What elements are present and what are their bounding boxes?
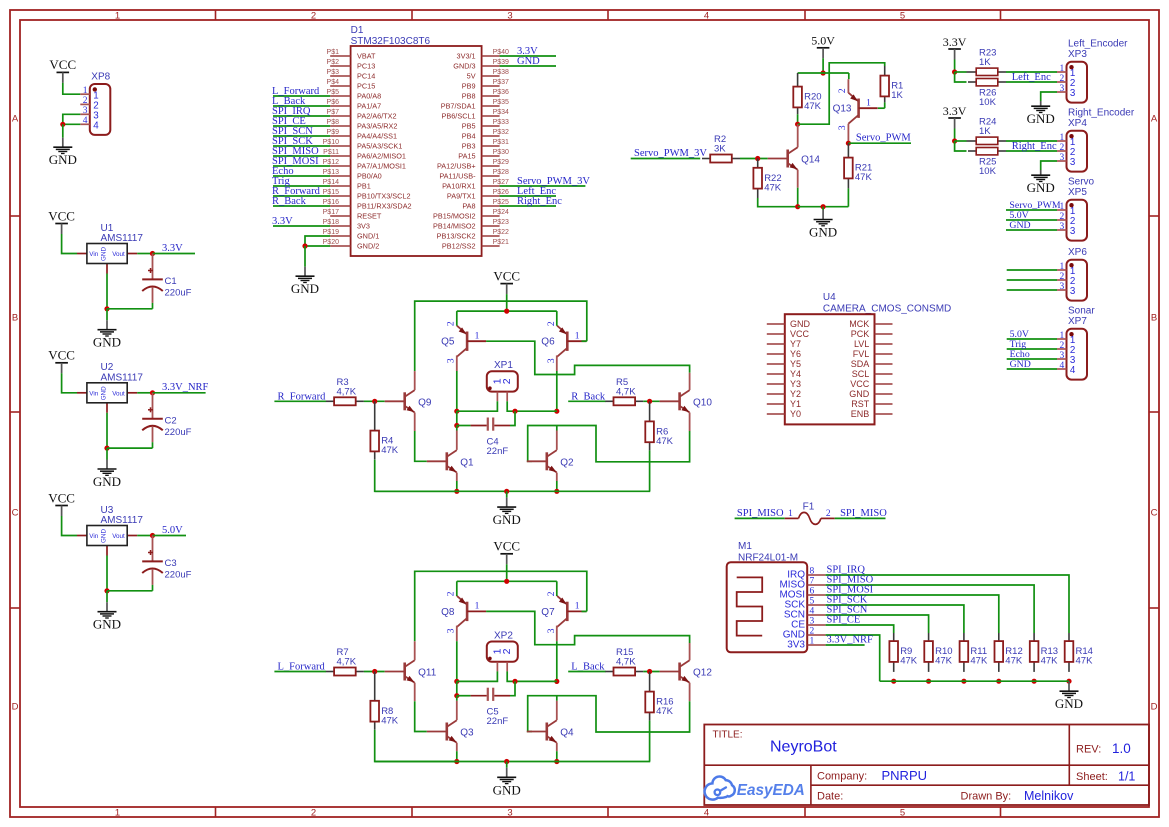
junction 3.3V XP3 [952, 69, 957, 74]
junction Q10 base node [647, 399, 652, 404]
svg-text:Q1: Q1 [460, 457, 474, 468]
wire XP8 pin3 to GND [63, 114, 81, 124]
resistor R22 [757, 158, 759, 167]
svg-text:PB5: PB5 [462, 122, 476, 131]
svg-text:XP7: XP7 [1068, 316, 1087, 327]
svg-text:REV:: REV: [1076, 744, 1101, 756]
svg-text:1: 1 [866, 98, 871, 108]
svg-text:P$32: P$32 [493, 129, 509, 136]
wire/net Right_Enc (P$25) [500, 205, 556, 207]
connector XP6 [1067, 260, 1088, 301]
svg-text:VCC: VCC [48, 348, 75, 363]
connector XP8 [90, 84, 111, 135]
junction 3.3V XP4 [952, 138, 957, 143]
svg-text:EasyEDA: EasyEDA [737, 782, 805, 799]
svg-text:1: 1 [83, 86, 88, 96]
wire/net 3.3V (P$18) [273, 225, 330, 227]
wire/net Left_Enc (P$26) [500, 195, 556, 197]
svg-text:PB13/SCK2: PB13/SCK2 [437, 232, 476, 241]
wire U1 Vout [137, 253, 152, 255]
svg-text:F1: F1 [803, 502, 815, 513]
svg-text:PB11/RX3/SDA2: PB11/RX3/SDA2 [357, 202, 412, 211]
svg-text:PB0/A0: PB0/A0 [357, 172, 382, 181]
wire 5V rail [798, 72, 849, 74]
wire to R24 [955, 140, 967, 142]
wire to Q12 base [643, 671, 659, 673]
svg-text:GND: GND [93, 617, 121, 632]
svg-text:XP2: XP2 [494, 630, 513, 641]
svg-text:Q10: Q10 [693, 397, 712, 408]
svg-text:3: 3 [1070, 88, 1076, 99]
svg-text:P$4: P$4 [327, 79, 340, 86]
svg-text:3.3V_NRF: 3.3V_NRF [827, 635, 874, 646]
wire to Q11 base [364, 671, 385, 673]
svg-text:1K: 1K [891, 90, 903, 101]
connector XP7 [1067, 329, 1088, 380]
svg-text:PB1: PB1 [357, 182, 371, 191]
wire R16 bottom to gnd rail [649, 721, 651, 762]
svg-text:PB4: PB4 [462, 132, 476, 141]
wire Q8 pin1 to Q12 collector [486, 611, 689, 644]
wire XP1 pin1 to left motor node [457, 401, 498, 411]
svg-text:P$17: P$17 [323, 209, 339, 216]
svg-text:2: 2 [311, 10, 316, 21]
svg-text:PA10/RX1: PA10/RX1 [442, 182, 476, 191]
mcu pin P$34 [482, 115, 500, 117]
mcu pin P$29 [482, 165, 500, 167]
wire/net SPI_MISO (nrf) [826, 585, 1035, 633]
ground (U2) [106, 448, 108, 459]
svg-text:4: 4 [810, 607, 815, 617]
capacitor C2 [152, 393, 154, 419]
svg-text:B: B [12, 313, 18, 324]
junction motor rail left [454, 409, 459, 414]
wire Q4 collector [556, 701, 558, 720]
transistor Q14 [786, 150, 789, 168]
svg-text:Q11: Q11 [418, 668, 437, 679]
wire Q6 pin1 to outer rail [582, 340, 587, 342]
mcu pin P$11 [330, 155, 350, 157]
svg-text:Servo: Servo [1068, 177, 1095, 188]
wire R8 bottom to gnd rail [375, 730, 457, 762]
junction cap left leg [454, 693, 459, 698]
svg-text:Vin: Vin [89, 533, 98, 540]
svg-text:PA3/A5/RX2: PA3/A5/RX2 [357, 122, 397, 131]
svg-text:GND: GND [101, 247, 108, 261]
svg-text:22nF: 22nF [487, 446, 509, 457]
wire XP4 pin1 [1006, 140, 1057, 142]
wire/net SPI_SCN (nrf) [826, 615, 929, 633]
junction motor rail right [554, 679, 559, 684]
junction gnd rail R12 [996, 679, 1001, 684]
junction gnd rail right [554, 489, 559, 494]
svg-text:A: A [12, 114, 19, 125]
svg-text:P$1: P$1 [327, 49, 340, 56]
junction XP8 gnd [60, 122, 65, 127]
wire/net Servo_PWM (XP5) [1006, 209, 1057, 211]
m1 pin IRQ [807, 574, 825, 576]
wire XP6 pin [1007, 289, 1057, 291]
wire Q7 pin3 down [556, 626, 558, 642]
svg-text:AMS1117: AMS1117 [101, 373, 144, 384]
svg-text:22nF: 22nF [487, 716, 509, 727]
svg-text:GND: GND [790, 319, 811, 329]
svg-text:47K: 47K [935, 656, 953, 667]
ground (servo) [822, 207, 824, 210]
svg-text:GND: GND [101, 386, 108, 400]
mcu pin P$15 [330, 195, 350, 197]
capacitor C5 [456, 681, 458, 695]
svg-text:Q9: Q9 [418, 397, 432, 408]
svg-text:PNRPU: PNRPU [882, 768, 928, 783]
wire 5V to rail [822, 58, 824, 73]
resistor R10 [928, 633, 930, 641]
svg-text:5: 5 [900, 807, 905, 818]
svg-text:SPI_MISO: SPI_MISO [840, 508, 887, 519]
junction 5V rail [821, 70, 826, 75]
mcu pin P$26 [482, 195, 500, 197]
svg-text:3: 3 [447, 358, 457, 363]
svg-text:3: 3 [1070, 157, 1076, 168]
svg-text:P$30: P$30 [493, 149, 509, 156]
mcu pin P$22 [482, 235, 500, 237]
u4 pin VCC [875, 383, 893, 385]
svg-text:PA11/USB-: PA11/USB- [439, 172, 476, 181]
svg-text:2: 2 [810, 627, 815, 637]
svg-text:2: 2 [547, 591, 557, 596]
mcu pin P$38 [482, 75, 500, 77]
u4 pin RST [875, 403, 893, 405]
mcu pin P$23 [482, 225, 500, 227]
svg-text:47K: 47K [970, 656, 988, 667]
svg-text:Left_Encoder: Left_Encoder [1068, 39, 1128, 50]
svg-text:3: 3 [547, 358, 557, 363]
u4 pin VCC [767, 333, 785, 335]
svg-text:6: 6 [810, 587, 815, 597]
ground (nrf) [1068, 681, 1070, 691]
wire Q6 pin3 down [556, 355, 558, 371]
svg-text:Vin: Vin [89, 390, 98, 397]
mcu pin P$9 [330, 135, 350, 137]
svg-text:2: 2 [1059, 341, 1064, 351]
svg-text:1: 1 [575, 602, 580, 612]
mcu pin P$8 [330, 125, 350, 127]
svg-text:1: 1 [475, 331, 480, 341]
resistor R13 [1033, 633, 1035, 641]
svg-text:Date:: Date: [817, 791, 843, 803]
m1 pin MOSI [807, 594, 825, 596]
svg-text:GND: GND [1010, 359, 1031, 370]
mcu pin P$28 [482, 175, 500, 177]
wire Q12 emitter to Q4 base [689, 683, 691, 702]
wire/net SPI_SCN (P$9) [273, 135, 330, 137]
ground (XP3) [1040, 101, 1042, 106]
svg-text:PB12/SS2: PB12/SS2 [442, 242, 476, 251]
svg-text:3: 3 [507, 807, 512, 818]
svg-text:VBAT: VBAT [357, 52, 376, 61]
resistor R26 [968, 81, 976, 83]
transistor Q1 [445, 452, 448, 470]
svg-text:5.0V: 5.0V [162, 525, 183, 536]
junction U2 gnd [104, 446, 109, 451]
wire Q2 collector [556, 431, 558, 450]
wire XP2 pin2 to right motor node [507, 671, 557, 681]
svg-text:SPI_CE: SPI_CE [827, 615, 861, 626]
wire/net L_Back (P$6) [273, 105, 330, 107]
svg-text:PC14: PC14 [357, 72, 375, 81]
wire/net SPI_SCK (P$10) [273, 145, 330, 147]
title block [704, 725, 1149, 806]
svg-text:PA7/A1/MOSI1: PA7/A1/MOSI1 [357, 162, 406, 171]
svg-text:3K: 3K [714, 144, 726, 155]
svg-text:P$38: P$38 [493, 69, 509, 76]
wire/net GND (XP5) [1006, 229, 1057, 231]
junction gnd rail left [454, 759, 459, 764]
wire Q7 pin2 [556, 581, 558, 596]
junction gnd rail R11 [961, 679, 966, 684]
svg-text:GND/3: GND/3 [453, 62, 475, 71]
mcu pin P$30 [482, 155, 500, 157]
wire Q5 pin2 [456, 311, 458, 326]
svg-text:ENB: ENB [851, 409, 870, 419]
svg-text:Sheet:: Sheet: [1076, 771, 1108, 783]
u4 pin PCK [875, 333, 893, 335]
wire nrf gnd rail [880, 680, 1069, 682]
svg-text:Y6: Y6 [790, 349, 801, 359]
wire Q8 pin3 down [456, 626, 458, 642]
net 3.3V_NRF (nrf) [826, 644, 865, 646]
m1 pin 3V3 [807, 644, 825, 646]
svg-text:Y5: Y5 [790, 359, 801, 369]
wire Q4 emitter [556, 743, 558, 751]
svg-text:3: 3 [447, 628, 457, 633]
svg-text:Drawn By:: Drawn By: [961, 791, 1012, 803]
wire Q14 collector [797, 124, 799, 147]
resistor R23 [967, 71, 977, 73]
svg-text:RESET: RESET [357, 212, 382, 221]
svg-text:4,7K: 4,7K [616, 657, 636, 668]
svg-text:VCC: VCC [48, 490, 75, 505]
transistor Q10 [678, 392, 681, 410]
mcu pin P$4 [330, 85, 350, 87]
svg-text:4,7K: 4,7K [616, 386, 636, 397]
svg-text:3: 3 [838, 125, 848, 130]
svg-text:P$3: P$3 [327, 69, 340, 76]
wire Q11 emitter to Q3 base [414, 683, 416, 702]
mcu pin P$12 [330, 165, 350, 167]
svg-text:PA1/A7: PA1/A7 [357, 102, 381, 111]
svg-text:GND: GND [809, 225, 837, 240]
svg-text:P$35: P$35 [493, 99, 509, 106]
wire to R23 [955, 71, 967, 73]
resistor R16 [649, 672, 651, 692]
svg-text:GND: GND [93, 474, 121, 489]
wire XP3 pin2 / net Left_Enc [1006, 81, 1057, 83]
svg-text:AMS1117: AMS1117 [101, 515, 144, 526]
wire R22 bottom corner [758, 198, 798, 207]
svg-text:GND: GND [1027, 111, 1055, 126]
wire U2 Vout [137, 392, 152, 394]
svg-text:FVL: FVL [853, 349, 870, 359]
svg-text:Vin: Vin [89, 251, 98, 258]
wire XP6 pin [1007, 269, 1057, 271]
wire gnd rail U3 [107, 590, 153, 592]
wire/net Servo_PWM_3V (P$27) [500, 185, 586, 187]
u4 pin GND [767, 323, 785, 325]
wire U3 Vout [137, 535, 152, 537]
junction motor rail right [554, 409, 559, 414]
svg-text:GND: GND [1027, 180, 1055, 195]
svg-text:P$34: P$34 [493, 109, 509, 116]
u4 pin SCL [875, 373, 893, 375]
svg-text:PA9/TX1: PA9/TX1 [447, 192, 476, 201]
ground (mcu) [304, 246, 306, 267]
junction cap left leg [454, 423, 459, 428]
svg-text:Left_Enc: Left_Enc [1012, 72, 1051, 83]
wire XP4 pin3 to gnd [1041, 161, 1057, 170]
svg-text:P$6: P$6 [327, 99, 340, 106]
svg-text:1K: 1K [979, 57, 991, 68]
svg-text:PB6/SCL1: PB6/SCL1 [442, 112, 476, 121]
svg-text:PB10/TX3/SCL2: PB10/TX3/SCL2 [357, 192, 411, 201]
mcu pin P$32 [482, 135, 500, 137]
svg-text:R_Back: R_Back [272, 196, 307, 207]
wire/net SPI_MOSI (P$12) [273, 165, 330, 167]
svg-text:PB15/MOSI2: PB15/MOSI2 [433, 212, 476, 221]
svg-text:PA12/USB+: PA12/USB+ [437, 162, 476, 171]
svg-text:D1: D1 [351, 25, 364, 36]
wire Q3 emitter [456, 743, 458, 751]
wire outer rail (Q9 collector to Q6 pin1) [415, 301, 587, 371]
wire to Q10 base [643, 400, 659, 402]
mcu pin P$7 [330, 115, 350, 117]
svg-text:4: 4 [93, 121, 99, 132]
resistor R25 [968, 150, 976, 152]
svg-text:Q7: Q7 [541, 607, 555, 618]
svg-text:P$2: P$2 [327, 59, 340, 66]
svg-text:3: 3 [507, 10, 512, 21]
svg-text:1.0: 1.0 [1112, 741, 1131, 756]
junction U2 out [150, 390, 155, 395]
resistor R3 [326, 400, 334, 402]
svg-text:Servo_PWM: Servo_PWM [856, 133, 911, 144]
wire/net R_Forward (P$15) [273, 195, 330, 197]
svg-text:VCC: VCC [493, 539, 520, 554]
wire Q5 pin3 down [456, 355, 458, 371]
svg-text:2: 2 [1059, 272, 1064, 282]
u4 pin Y5 [767, 363, 785, 365]
junction gnd rail R13 [1032, 679, 1037, 684]
ground (XP4) [1040, 170, 1042, 175]
mcu pin P$16 [330, 205, 350, 207]
transistor Q8 [466, 602, 469, 621]
transistor Q3 [445, 723, 448, 741]
svg-text:2: 2 [838, 88, 848, 93]
svg-text:XP4: XP4 [1068, 118, 1087, 129]
svg-text:3.3V: 3.3V [943, 35, 967, 49]
svg-text:3V3: 3V3 [357, 222, 370, 231]
wire R1 bottom to Q13 pin1 [884, 102, 886, 108]
svg-text:1: 1 [1059, 64, 1064, 74]
u4 pin Y3 [767, 383, 785, 385]
wire/net GND (P$39) [500, 65, 556, 67]
svg-text:PB7/SDA1: PB7/SDA1 [441, 102, 476, 111]
resistor R24 [967, 140, 977, 142]
wire Q13 pin3 down [847, 124, 849, 144]
svg-text:Sonar: Sonar [1068, 306, 1095, 317]
wire XP8 pin4 to GND [63, 123, 81, 125]
wire/net 5.0V (XP7) [1007, 338, 1057, 340]
svg-text:U4: U4 [823, 292, 836, 303]
svg-text:5V: 5V [467, 72, 476, 81]
junction gnd rail servo [821, 204, 826, 209]
resistor R21 [847, 143, 849, 157]
frame row ticks [10, 215, 20, 217]
mcu pin P$35 [482, 105, 500, 107]
m1 pin MISO [807, 584, 825, 586]
wire VCC to U1 Vin [62, 234, 77, 254]
svg-text:PB3: PB3 [462, 142, 476, 151]
resistor R14 [1068, 633, 1070, 641]
svg-text:2: 2 [547, 321, 557, 326]
svg-text:Y3: Y3 [790, 379, 801, 389]
ground (U3) [106, 591, 108, 602]
svg-text:Right_Encoder: Right_Encoder [1068, 108, 1135, 119]
svg-text:Q8: Q8 [441, 607, 455, 618]
wire outer rail (Q11 collector to Q7 pin1) [415, 571, 587, 641]
svg-text:3: 3 [1070, 286, 1076, 297]
wire Q9 emitter to Q1 base [414, 413, 416, 432]
svg-text:GND: GND [517, 56, 540, 67]
svg-text:3V3/1: 3V3/1 [457, 52, 476, 61]
wire Q10 emitter to Q2 base [689, 413, 691, 432]
regulator U2 AMS1117 [77, 392, 87, 394]
svg-text:3.3V: 3.3V [272, 216, 293, 227]
mcu pin P$31 [482, 145, 500, 147]
svg-text:3: 3 [83, 106, 88, 116]
wire/net 3.3V (P$40) [500, 55, 556, 57]
junction Q14 collector node [795, 122, 800, 127]
svg-text:Q6: Q6 [541, 337, 555, 348]
easyeda logo [705, 776, 735, 799]
svg-text:B: B [1151, 313, 1157, 324]
svg-text:2: 2 [1059, 212, 1064, 222]
wire XP6 pin [1007, 279, 1057, 281]
svg-text:GND/1: GND/1 [357, 232, 379, 241]
junction U3 gnd [104, 588, 109, 593]
junction gnd rail q14 [795, 204, 800, 209]
wire Q9 collector up [414, 371, 416, 390]
svg-text:3: 3 [1070, 226, 1076, 237]
svg-text:C3: C3 [165, 558, 177, 569]
svg-text:Y4: Y4 [790, 369, 801, 379]
resistor R8 [374, 672, 376, 701]
svg-text:PA4/A4/SS1: PA4/A4/SS1 [357, 132, 397, 141]
wire VCC to XP8 pin1 [63, 83, 81, 94]
svg-text:5: 5 [900, 10, 905, 21]
svg-text:P$8: P$8 [327, 119, 340, 126]
junction gnd rail left [454, 489, 459, 494]
svg-text:GND: GND [493, 782, 521, 797]
svg-text:VCC: VCC [850, 379, 870, 389]
svg-text:CAMERA_CMOS_CONSMD: CAMERA_CMOS_CONSMD [823, 304, 951, 315]
mcu pin P$2 [330, 65, 350, 67]
svg-text:8: 8 [810, 567, 815, 577]
svg-text:1: 1 [115, 807, 120, 818]
svg-text:VCC: VCC [49, 57, 76, 72]
svg-text:Q12: Q12 [693, 668, 712, 679]
junction mcu gnd [302, 243, 307, 248]
